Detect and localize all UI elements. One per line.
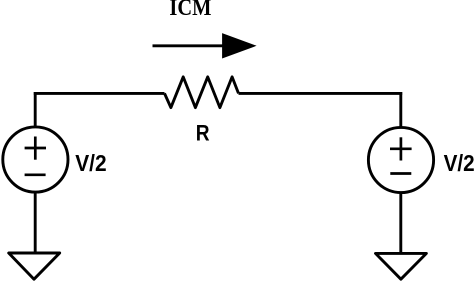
label R (196, 121, 210, 146)
svg-text:V/2: V/2 (444, 150, 474, 176)
label V/2 (right) (444, 150, 474, 176)
wire right vertical top (399, 92, 402, 127)
wire left vertical bottom (34, 193, 37, 254)
svg-text:ICM: ICM (169, 0, 211, 21)
svg-text:R: R (196, 121, 210, 146)
wire top-left horizontal (34, 92, 165, 95)
voltage source V2 (right, V/2) (368, 127, 433, 192)
resistor R (165, 77, 239, 108)
current arrow ICM (153, 33, 257, 58)
voltage source V1 (left, V/2) (3, 127, 68, 192)
label ICM (169, 0, 211, 21)
svg-text:V/2: V/2 (75, 150, 106, 176)
wire right vertical bottom (399, 193, 402, 254)
ground (left) (9, 253, 60, 279)
wire left vertical top (34, 92, 37, 126)
ground (right) (376, 253, 427, 279)
wire top-right horizontal (239, 92, 403, 95)
label V/2 (left) (75, 150, 106, 176)
